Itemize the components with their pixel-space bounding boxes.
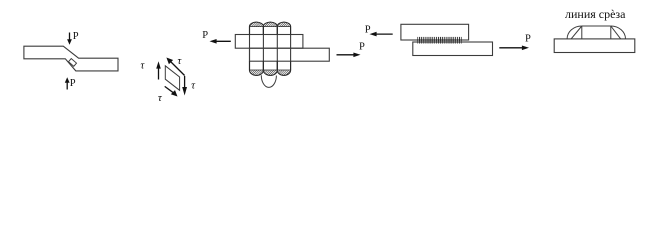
svg-text:P: P bbox=[525, 33, 531, 44]
bottom rivet head 2 outline bbox=[263, 61, 277, 75]
svg-text:τ: τ bbox=[141, 61, 146, 72]
figure 2: pure-shear parallelogram element bbox=[165, 66, 179, 91]
force arrow P left (fig 3) bbox=[215, 40, 231, 42]
bottom rivet head 1 hatched cap bbox=[250, 70, 264, 75]
bottom rivet head 1 outline bbox=[250, 61, 264, 75]
force arrow P down (top of fig 1) bbox=[69, 33, 71, 41]
top rivet head 2 hatched cap bbox=[263, 22, 277, 26]
chamfer line left bbox=[571, 26, 582, 39]
bottom rivet head 2 hatched cap bbox=[263, 70, 277, 75]
svg-text:τ: τ bbox=[191, 81, 196, 92]
svg-text:τ: τ bbox=[178, 56, 183, 67]
svg-text:τ: τ bbox=[158, 93, 163, 104]
head arc right bbox=[611, 26, 626, 39]
glue seam comb hatching bbox=[417, 37, 461, 44]
tau arrow down-right (bottom face) bbox=[165, 86, 175, 93]
lower plate bbox=[250, 48, 330, 61]
rivet shank line 3 bbox=[276, 35, 278, 62]
figure 5: sheared rivet head, base plate bbox=[554, 39, 635, 53]
figure 4: glued lap joint, upper plate bbox=[401, 24, 469, 40]
tau arrow up (left face) bbox=[158, 67, 160, 80]
rivet head dome: flat top bbox=[582, 25, 611, 27]
top rivet head 3 outline bbox=[277, 22, 290, 34]
force arrow P right (fig 3) bbox=[337, 54, 356, 56]
svg-text:линия срѐза: линия срѐза bbox=[565, 7, 626, 21]
svg-text:P: P bbox=[70, 78, 76, 89]
svg-text:P: P bbox=[73, 31, 79, 42]
lower plate bbox=[413, 42, 493, 56]
svg-text:P: P bbox=[359, 42, 365, 53]
top rivet head 3 hatched cap bbox=[277, 22, 290, 26]
chamfer line right bbox=[611, 26, 621, 39]
sheared element rhombus in Z-plate bbox=[68, 59, 76, 67]
rivet shank line 2 bbox=[262, 35, 264, 62]
shear line right (vertical) bbox=[610, 26, 612, 39]
rivet shank line 4 bbox=[290, 35, 292, 62]
shear line left (vertical) bbox=[581, 26, 583, 39]
figure 3: double riveted lap joint, upper plate bbox=[235, 35, 303, 49]
svg-text:P: P bbox=[202, 30, 208, 41]
top rivet head 1 outline bbox=[250, 22, 264, 34]
force arrow P up (bottom of fig 1) bbox=[66, 82, 68, 90]
top rivet head 2 outline bbox=[263, 22, 277, 34]
bottom rivet head 3 hatched cap bbox=[277, 70, 290, 75]
figure 1: offset bar (Z-plate) outline bbox=[24, 46, 118, 71]
rivet shank line 1 bbox=[249, 35, 251, 62]
shear-surface arc under middle rivet bbox=[261, 75, 276, 87]
top rivet head 1 hatched cap bbox=[250, 22, 264, 26]
bottom rivet head 3 outline bbox=[277, 61, 290, 75]
head arc left bbox=[567, 26, 582, 39]
tau arrow up-left (top face) bbox=[170, 61, 185, 76]
svg-text:P: P bbox=[365, 24, 371, 35]
force arrow P right (fig 4) bbox=[499, 47, 524, 49]
tau arrow down (right face) bbox=[184, 76, 186, 89]
force arrow P left (fig 4) bbox=[375, 33, 393, 35]
